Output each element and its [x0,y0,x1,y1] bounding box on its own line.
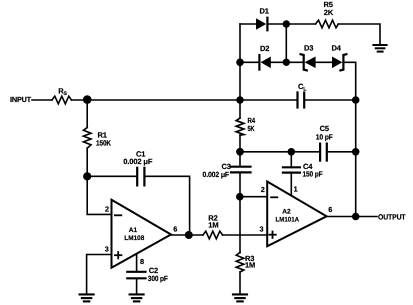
node left column input row [236,96,244,104]
node CL right [352,96,360,104]
svg-text:1M: 1M [245,260,255,269]
svg-text:2: 2 [261,185,265,194]
wire input row left [32,99,52,101]
wire D4 to right column corner [343,62,355,216]
wire A1 pin8 to C2 [136,254,138,272]
zener diode D4 [332,54,346,70]
resistor R5 [316,20,339,28]
wire A1 output to R2 [171,234,203,236]
wire C5 to right column [327,151,356,153]
wire A2 output row [327,216,377,218]
svg-text:0.002 μF: 0.002 μF [203,170,230,179]
capacitor C4 [283,167,300,172]
wire left column top (D1 corner down to D2 row) [239,24,241,62]
node D2 row left [236,59,244,67]
svg-text:2K: 2K [324,8,334,17]
resistor R1 [83,128,91,149]
wire A2 pin2 row [240,196,267,198]
svg-text:2: 2 [105,205,109,214]
capacitor C5 [320,144,327,161]
svg-text:LM108: LM108 [124,235,144,242]
wire C2 to ground [136,278,138,294]
op-amp A2 [267,182,326,247]
ground top right [373,45,386,52]
wire C4 top to C5 row [290,152,292,168]
svg-text:D3: D3 [304,44,313,53]
wire R1 column: input dot to R1 [86,100,88,128]
wire D2 row left [240,61,259,63]
svg-text:LM101A: LM101A [276,216,300,223]
svg-text:300 pF: 300 pF [148,274,168,283]
svg-text:150K: 150K [96,138,112,147]
svg-text:5K: 5K [248,124,256,133]
node A2 pin2 [236,193,244,201]
wire R5 to top-right corner [338,24,380,45]
ground under R3 [233,294,247,301]
svg-text:6: 6 [328,205,332,214]
zener diode D3 [301,54,316,70]
svg-text:150 pF: 150 pF [303,170,323,179]
capacitor C3 [231,167,251,173]
svg-text:3: 3 [105,244,109,253]
capacitor C2 [127,272,145,279]
diode D2 [259,55,270,70]
svg-text:D4: D4 [332,44,342,53]
svg-text:10 pF: 10 pF [316,132,334,141]
resistor R2 [203,231,223,239]
wire left column input row to R4 [239,62,241,118]
node C4 top [288,148,296,156]
wire input row to CL [72,99,298,101]
svg-text:1: 1 [294,185,298,194]
svg-text:3: 3 [260,225,264,234]
wire R1 to C1 row dot [86,148,88,176]
node A1 output [185,231,193,239]
svg-text:1M: 1M [208,221,218,230]
resistor R3 [236,253,244,273]
svg-text:A1: A1 [129,227,138,234]
wire R3 to ground [239,272,241,294]
svg-text:8: 8 [140,257,144,266]
svg-text:0.002 μF: 0.002 μF [123,157,153,166]
resistor R4 [236,118,244,135]
node output [352,213,360,221]
wire D2 to D3 [271,61,304,63]
wire top row D1 segment [240,23,256,25]
svg-text:INPUT: INPUT [10,95,32,104]
node input junction [83,95,92,104]
node R4 bottom [236,148,244,156]
svg-text:A2: A2 [282,209,291,216]
svg-text:OUTPUT: OUTPUT [378,213,406,222]
ground under C2 [130,294,144,301]
node C5 right [352,148,360,156]
op-amp A1 [112,200,172,268]
resistor Rs [52,96,72,104]
wire D3 to D4 [316,61,332,63]
wire C4 bottom to A2 pin1 [290,173,292,196]
node C1 left [83,172,91,180]
svg-text:D1: D1 [260,7,269,16]
diode D1 [256,18,267,31]
wire C5 row left [240,151,320,153]
wire C3 down through pin2 node to R3 [239,172,241,252]
wire R4 to C3 [239,135,241,166]
wire R2 to A2 pin3 [223,234,268,236]
wire C1 right to A1 output [145,176,190,235]
node D2 anode [283,59,290,66]
wire D1 to R5 [267,23,315,25]
capacitor CL [298,93,305,108]
wire R3 column lower [239,252,241,254]
ground under A1 pin3 [80,294,94,301]
wire A1 pin2 [87,176,111,214]
wire C1 row left [87,175,137,177]
capacitor C1 [137,168,144,186]
wire D1 junction down to D2 row [285,24,287,62]
svg-text:D2: D2 [260,44,269,53]
wire A1 pin3 [87,255,112,295]
wire CL to right column [304,99,356,101]
svg-text:6: 6 [173,224,177,233]
node D1 cathode [283,20,290,27]
